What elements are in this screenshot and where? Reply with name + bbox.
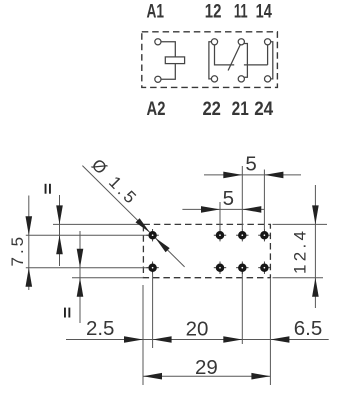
equal mark bottom xyxy=(64,308,66,318)
extension line hole row 2 left xyxy=(26,267,148,269)
wire bracket 14-24 xyxy=(271,42,273,79)
svg-text:20: 20 xyxy=(186,318,209,341)
dimension line 7.5 xyxy=(28,196,30,291)
extension line outline left bottom xyxy=(142,285,144,385)
arrowhead 29 left xyxy=(143,373,162,380)
svg-text:12: 12 xyxy=(205,2,222,23)
dimension line equal gap top xyxy=(59,195,61,266)
extension line outline bottom right xyxy=(273,277,324,279)
dimension line equal gap bottom xyxy=(79,231,81,323)
arrowhead 2.5 left xyxy=(124,336,143,343)
svg-text:6.5: 6.5 xyxy=(294,317,323,340)
contact terminal 22 xyxy=(211,76,217,82)
hole c1 row1 xyxy=(214,229,226,241)
relay enclosure dashed box xyxy=(142,32,278,88)
svg-text:12.4: 12.4 xyxy=(291,228,310,274)
arrowhead 7.5 bottom xyxy=(26,268,33,287)
arrowhead 5 upper left xyxy=(223,172,242,179)
arrowhead 20 right xyxy=(223,336,242,343)
arrowhead 29 right xyxy=(251,373,270,380)
extension line outline top right xyxy=(273,223,328,225)
svg-text:5: 5 xyxy=(245,152,256,175)
extension line hole row 1 left xyxy=(26,234,148,236)
extension line column c2 bottom xyxy=(241,272,243,345)
wire NC fixed contact from 12 xyxy=(215,45,235,65)
equal mark top xyxy=(45,184,47,194)
contact terminal 11 xyxy=(238,39,244,45)
svg-text:2.5: 2.5 xyxy=(86,317,115,340)
wire coil to A2 xyxy=(161,64,175,80)
dimension line 29 xyxy=(143,375,270,377)
svg-text:5: 5 xyxy=(223,187,234,210)
arrowhead 5 upper right xyxy=(264,172,283,179)
svg-text:24: 24 xyxy=(254,99,273,120)
coil xyxy=(165,57,184,64)
wire NO fixed contact stem of 14 xyxy=(267,45,269,65)
svg-text:A1: A1 xyxy=(146,2,164,23)
extension line coil column bottom xyxy=(152,274,154,348)
arrowhead equal bottom upper xyxy=(77,249,84,268)
hole c1 row2 xyxy=(214,262,226,274)
wire bracket 12-22 xyxy=(209,42,212,79)
extension line column c1 xyxy=(219,202,221,229)
dimension line 5 lower xyxy=(182,208,264,210)
contact terminal 14 xyxy=(265,39,271,45)
svg-text:11: 11 xyxy=(234,2,248,23)
hole c2 row2 xyxy=(236,262,248,274)
contact terminal 21 xyxy=(238,76,244,82)
extension line outline right bottom xyxy=(269,279,271,386)
arrowhead 12.4 bottom xyxy=(312,278,319,297)
extension line column c2 xyxy=(241,166,243,229)
hole coil row1 xyxy=(146,229,158,241)
arrowhead 12.4 top xyxy=(312,205,319,224)
extension line outline bottom left xyxy=(72,277,143,279)
arrowhead leader upper xyxy=(136,218,151,232)
dimension line 2.5 20 6.5 xyxy=(66,339,329,341)
wire A1 to coil xyxy=(161,42,175,57)
contact terminal 12 xyxy=(211,39,217,45)
wire NO contact horizontal xyxy=(244,64,268,66)
extension line outline top left xyxy=(53,223,143,225)
mounting holes xyxy=(146,229,270,274)
svg-text:29: 29 xyxy=(195,356,218,379)
arrowhead 5 lower right xyxy=(242,206,261,213)
svg-text:14: 14 xyxy=(256,2,273,23)
arrowhead equal bottom lower xyxy=(77,278,84,297)
dimension line 5 upper xyxy=(204,174,301,176)
coil terminal A1 xyxy=(155,39,161,45)
arrowhead equal top upper xyxy=(56,205,63,224)
leader line diameter xyxy=(82,166,184,267)
svg-text:A2: A2 xyxy=(147,99,166,120)
movable contact arm from 11 xyxy=(228,45,240,71)
hole c3 row1 xyxy=(258,229,270,241)
contact terminal 24 xyxy=(265,76,271,82)
hole c3 row2 xyxy=(258,262,270,274)
arrowhead 5 lower left xyxy=(201,206,220,213)
hole coil row2 xyxy=(146,262,158,274)
svg-text:22: 22 xyxy=(202,99,221,120)
wire bracket 11-21 xyxy=(244,44,248,78)
relay outline dashed (drilling plan) xyxy=(143,224,270,277)
svg-text:21: 21 xyxy=(232,99,249,120)
arrowhead leader lower xyxy=(155,238,170,252)
arrowhead 6.5 left xyxy=(270,336,289,343)
coil terminal A2 xyxy=(155,76,161,82)
hole c2 row1 xyxy=(236,229,248,241)
dimension line 12.4 xyxy=(314,185,316,308)
arrowhead 20 left xyxy=(153,336,172,343)
svg-text:7.5: 7.5 xyxy=(8,234,27,267)
arrowhead equal top lower xyxy=(56,235,63,254)
extension line column c3 xyxy=(263,170,265,230)
arrowhead 7.5 top xyxy=(26,216,33,235)
